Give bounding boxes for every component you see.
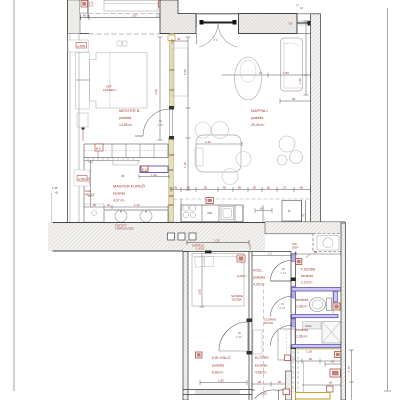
svg-text:1,55: 1,55 xyxy=(218,379,224,383)
room label kis halo xyxy=(212,355,230,375)
door eloter bottom xyxy=(252,390,286,400)
window tag A xyxy=(80,0,94,13)
appliance M xyxy=(282,201,306,222)
tag fszoba xyxy=(296,259,302,265)
note below vanity xyxy=(115,223,135,231)
wall terrace right block (hatched) xyxy=(160,0,196,34)
property line left xyxy=(13,0,15,391)
door tag yellow xyxy=(168,35,175,41)
svg-text:2,4: 2,4 xyxy=(89,4,94,8)
svg-text:MOSÓ: MOSÓ xyxy=(264,320,274,325)
window tag B xyxy=(159,1,166,8)
svg-text:2,05: 2,05 xyxy=(198,289,202,295)
ceiling symbols xyxy=(117,41,127,46)
svg-text:,45: ,45 xyxy=(173,186,178,190)
partition yellow upper (bedroom/living) xyxy=(169,34,174,223)
svg-text:1,70: 1,70 xyxy=(347,366,351,372)
shelf above vanity xyxy=(113,161,138,166)
svg-text:4,48: 4,48 xyxy=(154,89,158,95)
entry wall hatch xyxy=(283,371,292,400)
fszoba top dim xyxy=(292,250,345,258)
svg-text:,70: ,70 xyxy=(282,186,287,190)
left side small texts xyxy=(52,186,59,195)
svg-text:1,10: 1,10 xyxy=(183,162,187,168)
svg-text:KÖZL.: KÖZL. xyxy=(253,269,263,273)
gap dim ticks xyxy=(255,207,272,214)
room label fszoba xyxy=(301,268,316,285)
door master bedroom xyxy=(135,106,174,140)
svg-text:1,85: 1,85 xyxy=(87,177,91,183)
living room top wall: double door opening xyxy=(196,14,238,47)
svg-text:35: 35 xyxy=(177,37,181,41)
svg-text:,60: ,60 xyxy=(266,186,271,190)
bed dim vertical xyxy=(198,254,205,308)
dining table dim xyxy=(196,140,242,147)
svg-text:3,57: 3,57 xyxy=(132,14,138,18)
svg-text:1,80: 1,80 xyxy=(283,71,289,75)
svg-text:kerámia: kerámia xyxy=(255,364,267,368)
lower right wall (hatched) xyxy=(341,223,346,400)
svg-text:4,68 m²: 4,68 m² xyxy=(255,371,267,375)
svg-text:1,35: 1,35 xyxy=(214,239,220,243)
wall outer left top (hatched) xyxy=(68,0,85,222)
svg-text:2,28: 2,28 xyxy=(306,350,312,354)
kozl top dim xyxy=(252,252,291,259)
svg-text:,60: ,60 xyxy=(308,357,313,361)
wardrobe hanger ticks xyxy=(88,158,133,162)
svg-text:95: 95 xyxy=(331,360,335,364)
radiator mark xyxy=(82,128,85,142)
room label eloter xyxy=(255,355,269,375)
kis halo dim xyxy=(200,379,247,386)
svg-text:,90: ,90 xyxy=(313,250,318,254)
svg-text:1,50: 1,50 xyxy=(183,69,187,75)
bathroom top line xyxy=(84,160,140,162)
living dim mid horizontal xyxy=(222,71,311,104)
door kis halo xyxy=(219,319,252,355)
svg-text:,60: ,60 xyxy=(252,186,257,190)
room label kozl xyxy=(253,269,265,287)
note szurke moso xyxy=(264,318,276,326)
svg-text:B.9: B.9 xyxy=(96,147,101,151)
svg-text:45: 45 xyxy=(121,174,125,178)
room label master bath xyxy=(113,184,145,203)
kitchen dashed upper cabinets xyxy=(174,198,311,200)
eloter cabinet xyxy=(253,330,262,354)
svg-text:7,8: 7,8 xyxy=(288,22,293,26)
svg-text:1,35: 1,35 xyxy=(52,186,58,190)
sofa xyxy=(281,38,303,91)
svg-text:F.SZOBA: F.SZOBA xyxy=(301,268,316,272)
middle wall vertical lower xyxy=(291,252,296,400)
entry door yellow xyxy=(296,393,331,400)
bathtub left xyxy=(84,204,104,222)
svg-text:KIS HÁLÓ: KIS HÁLÓ xyxy=(212,355,230,360)
svg-text:1,40: 1,40 xyxy=(134,203,140,207)
svg-text:1,08 m²: 1,08 m² xyxy=(296,305,308,309)
svg-text:2,15: 2,15 xyxy=(280,306,286,310)
svg-text:2,5: 2,5 xyxy=(268,252,272,256)
property line right xyxy=(387,8,389,391)
lower section left wall (hatched) xyxy=(183,252,188,400)
svg-text:MG: MG xyxy=(208,211,213,215)
note red xyxy=(292,242,298,250)
svg-text:,95: ,95 xyxy=(257,380,262,384)
svg-text:GÉP: GÉP xyxy=(292,245,298,250)
svg-text:ELŐTÉR: ELŐTÉR xyxy=(255,355,269,360)
svg-text:TÖRÖLKÖZŐ: TÖRÖLKÖZŐ xyxy=(115,226,135,231)
room label living xyxy=(251,108,268,127)
svg-text:FEKHELY: FEKHELY xyxy=(103,88,116,92)
svg-text:A.500: A.500 xyxy=(78,177,86,181)
window dim vertical right xyxy=(296,3,309,95)
coffee table xyxy=(235,57,262,100)
svg-text:B.10: B.10 xyxy=(142,168,149,172)
kitchen tag xyxy=(206,198,214,204)
utility dashed room with machine xyxy=(313,234,342,252)
svg-text:8 9: 8 9 xyxy=(214,38,218,42)
wc room xyxy=(292,291,339,318)
svg-text:kerámia: kerámia xyxy=(296,328,308,332)
svg-text:,60: ,60 xyxy=(186,186,191,190)
terrace dim line 3,57 xyxy=(80,14,196,21)
svg-text:2,40: 2,40 xyxy=(236,335,242,339)
bed master xyxy=(90,53,148,109)
door kozl-fszoba xyxy=(271,261,292,282)
svg-text:1,05: 1,05 xyxy=(261,392,267,396)
svg-text:GARD: GARD xyxy=(237,274,247,278)
svg-text:parketta: parketta xyxy=(251,116,263,120)
svg-text:90: 90 xyxy=(329,381,333,385)
svg-text:,90: ,90 xyxy=(277,380,282,384)
kitchen wall lines xyxy=(180,199,182,222)
entry tags xyxy=(302,360,341,398)
room label master bedroom xyxy=(119,108,141,127)
bathtub note xyxy=(85,189,95,197)
svg-text:parketta: parketta xyxy=(119,116,131,120)
svg-text:kerámia: kerámia xyxy=(113,192,125,196)
wall between kis halo and elote r xyxy=(249,252,252,400)
svg-text:2,10: 2,10 xyxy=(205,140,211,144)
svg-text:A.500: A.500 xyxy=(77,44,85,48)
svg-text:parketta: parketta xyxy=(253,276,265,280)
wardrobe row xyxy=(84,144,168,158)
dining table xyxy=(195,122,251,185)
svg-text:14,85 m²: 14,85 m² xyxy=(119,123,133,127)
entry hall xyxy=(293,346,341,392)
svg-text:,45: ,45 xyxy=(82,14,87,18)
bed small bedroom xyxy=(192,254,244,307)
svg-text:25,44 m²: 25,44 m² xyxy=(251,123,265,127)
svg-text:75: 75 xyxy=(302,213,306,217)
band dim 1,35 xyxy=(187,239,249,248)
living dim chain bottom xyxy=(170,187,311,192)
fszoba bottom purple wall xyxy=(292,288,342,292)
facade wardrobe rects xyxy=(76,53,90,128)
note szürke szoba xyxy=(231,294,243,302)
svg-text:,50: ,50 xyxy=(92,203,97,207)
svg-text:HELYE: HELYE xyxy=(85,193,95,197)
door wc arc xyxy=(271,297,291,317)
tag wardrobe xyxy=(95,144,103,151)
bedroom top wall xyxy=(80,33,89,35)
svg-text:NAPPALI: NAPPALI xyxy=(251,108,268,113)
svg-text:1,40: 1,40 xyxy=(151,173,157,177)
svg-text:45: 45 xyxy=(55,191,59,195)
bath dim xyxy=(84,203,168,209)
door kamra arc xyxy=(271,326,291,346)
eloter dashed boundary xyxy=(263,283,265,398)
terrace top-left xyxy=(88,0,196,18)
kis halo bottom wall window xyxy=(183,390,252,395)
svg-text:1,55,5: 1,55,5 xyxy=(196,247,205,251)
kitchen counter row xyxy=(181,205,243,222)
lower section top line xyxy=(183,251,291,253)
vanity blue xyxy=(139,166,169,179)
svg-text:,60: ,60 xyxy=(222,186,227,190)
wall living top middle block (hatched) xyxy=(239,14,298,34)
right dim vertical lower xyxy=(347,350,354,400)
svg-text:SZOBA: SZOBA xyxy=(232,298,242,302)
living dim vertical at partition xyxy=(183,37,191,190)
eloter dim xyxy=(252,380,291,387)
svg-text:1,36 m²: 1,36 m² xyxy=(296,335,308,339)
svg-text:,60: ,60 xyxy=(237,186,242,190)
double basin vanity xyxy=(104,210,168,223)
window living top right xyxy=(288,14,321,34)
svg-text:,66: ,66 xyxy=(299,186,304,190)
svg-text:8,86 m²: 8,86 m² xyxy=(212,371,224,375)
wall right outer (hatched) xyxy=(311,14,321,222)
svg-text:2,10 m²: 2,10 m² xyxy=(301,281,313,285)
svg-text:18: 18 xyxy=(300,6,304,10)
top wall annotation xyxy=(196,247,212,254)
bathroom dim vertical xyxy=(87,161,94,208)
svg-text:parketta: parketta xyxy=(212,364,224,368)
facade window tag niche top xyxy=(68,40,89,52)
svg-text:kerámia: kerámia xyxy=(296,298,308,302)
svg-text:,90: ,90 xyxy=(203,186,208,190)
svg-text:,20: ,20 xyxy=(106,203,111,207)
svg-text:4,67 m²: 4,67 m² xyxy=(113,199,125,203)
entry tan sill xyxy=(292,348,341,350)
property line end tick xyxy=(384,390,391,392)
svg-text:2,62: 2,62 xyxy=(248,244,252,250)
svg-text:MESTER B.: MESTER B. xyxy=(119,108,141,113)
tag small bedroom xyxy=(237,255,247,278)
svg-text:2,10: 2,10 xyxy=(281,271,287,275)
entry closet xyxy=(278,329,295,361)
svg-text:1,50: 1,50 xyxy=(298,78,302,84)
svg-text:2,75: 2,75 xyxy=(158,123,164,127)
shaft squares xyxy=(168,233,197,240)
wall band bottom of upper section (hatched) xyxy=(48,193,345,251)
facade window tag niche lower xyxy=(74,170,90,186)
armchair circles xyxy=(277,136,303,165)
svg-text:MASTER FÜRDŐ: MASTER FÜRDŐ xyxy=(113,184,145,189)
tag left wall xyxy=(196,352,203,358)
svg-text:95: 95 xyxy=(292,97,296,101)
kamra room xyxy=(292,322,342,348)
sliding niche rect xyxy=(172,34,197,97)
svg-text:kerámia: kerámia xyxy=(301,274,313,278)
tag wc xyxy=(333,303,340,310)
bedroom dim vertical xyxy=(154,37,163,140)
shower drain xyxy=(92,211,97,216)
